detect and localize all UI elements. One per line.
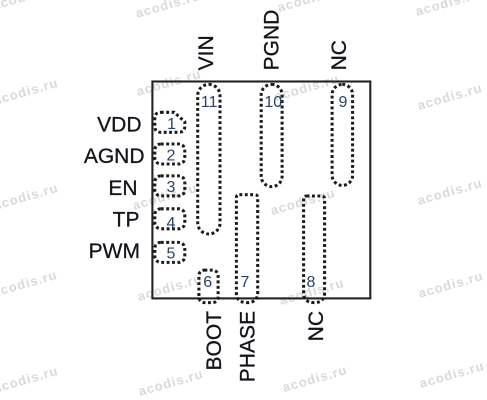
- pin 8 pad NC: [304, 196, 325, 303]
- pin 9 pad NC: [332, 84, 353, 185]
- svg-text:PHASE: PHASE: [237, 311, 260, 382]
- svg-text:4: 4: [167, 215, 176, 232]
- svg-text:BOOT: BOOT: [203, 311, 226, 371]
- pin 11 pad VIN: [198, 84, 220, 234]
- svg-text:NC: NC: [305, 311, 328, 341]
- watermark row 3: [0, 175, 484, 218]
- svg-text:9: 9: [339, 94, 348, 111]
- svg-text:acodis.ru: acodis.ru: [137, 366, 205, 399]
- svg-text:VDD: VDD: [97, 114, 141, 137]
- svg-text:acodis.ru: acodis.ru: [134, 0, 202, 21]
- svg-text:7: 7: [241, 274, 250, 291]
- watermark row 2: [0, 66, 484, 113]
- svg-text:acodis.ru: acodis.ru: [417, 268, 485, 301]
- svg-text:acodis.ru: acodis.ru: [273, 71, 341, 104]
- svg-text:acodis.ru: acodis.ru: [269, 185, 337, 218]
- svg-text:PWM: PWM: [89, 240, 140, 263]
- pin 5 pad: [155, 242, 185, 262]
- svg-text:8: 8: [307, 274, 316, 291]
- svg-text:acodis.ru: acodis.ru: [0, 75, 60, 108]
- svg-text:2: 2: [167, 148, 176, 165]
- svg-text:TP: TP: [113, 209, 140, 232]
- svg-text:6: 6: [203, 274, 212, 291]
- svg-text:PGND: PGND: [260, 10, 283, 71]
- svg-text:11: 11: [201, 94, 218, 111]
- pin 3 pad: [155, 176, 185, 196]
- svg-text:acodis.ru: acodis.ru: [416, 80, 484, 113]
- svg-text:acodis.ru: acodis.ru: [276, 0, 344, 15]
- svg-text:AGND: AGND: [84, 145, 145, 168]
- pin 10 pad PGND: [261, 84, 282, 186]
- watermark row 4: [0, 267, 485, 308]
- svg-text:VIN: VIN: [195, 35, 218, 70]
- svg-text:acodis.ru: acodis.ru: [416, 175, 484, 208]
- svg-text:10: 10: [264, 94, 282, 111]
- svg-text:3: 3: [167, 179, 176, 196]
- watermark row 1: [0, 0, 482, 21]
- watermark row 5: [0, 358, 486, 399]
- svg-text:EN: EN: [108, 177, 137, 200]
- svg-text:acodis.ru: acodis.ru: [0, 0, 59, 13]
- pin 1 pad (chamfered): [155, 112, 185, 132]
- svg-text:acodis.ru: acodis.ru: [418, 358, 486, 391]
- svg-text:acodis.ru: acodis.ru: [0, 180, 60, 213]
- svg-text:5: 5: [167, 245, 176, 262]
- svg-text:acodis.ru: acodis.ru: [0, 267, 59, 300]
- pin 4 pad: [155, 209, 185, 229]
- svg-text:acodis.ru: acodis.ru: [131, 180, 199, 213]
- package outline U1: [152, 82, 370, 299]
- svg-text:1: 1: [167, 116, 176, 133]
- svg-text:acodis.ru: acodis.ru: [0, 363, 60, 396]
- pin 7 pad PHASE: [236, 195, 257, 303]
- svg-text:acodis.ru: acodis.ru: [281, 362, 349, 395]
- svg-text:NC: NC: [328, 40, 351, 70]
- svg-text:acodis.ru: acodis.ru: [414, 0, 482, 19]
- pin 2 pad: [155, 144, 185, 164]
- pin 6 pad BOOT: [199, 270, 218, 303]
